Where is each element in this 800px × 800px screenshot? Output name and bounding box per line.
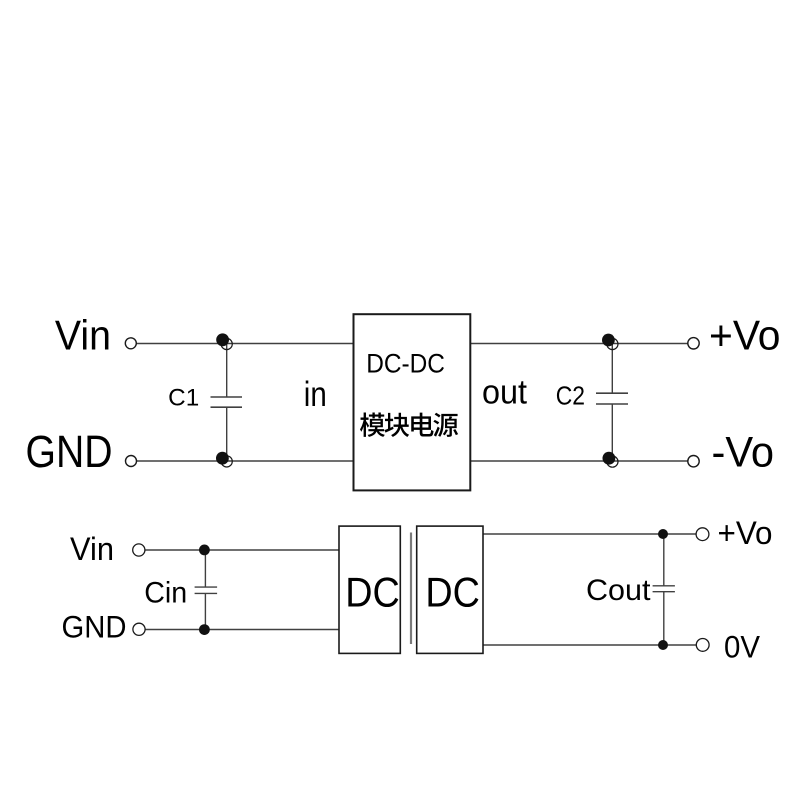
svg-text:GND: GND [62, 608, 127, 644]
svg-text:DC: DC [425, 568, 480, 615]
svg-text:-Vo: -Vo [712, 429, 775, 476]
svg-text:DC-DC: DC-DC [366, 349, 445, 379]
svg-text:Vin: Vin [70, 531, 114, 567]
svg-text:Cin: Cin [144, 577, 187, 610]
svg-text:+Vo: +Vo [709, 312, 781, 359]
svg-text:C1: C1 [168, 384, 199, 411]
svg-text:Cout: Cout [586, 575, 651, 607]
svg-text:in: in [304, 375, 327, 414]
svg-text:out: out [482, 373, 528, 411]
svg-text:C2: C2 [556, 381, 585, 411]
svg-text:Vin: Vin [55, 312, 111, 359]
svg-text:+Vo: +Vo [718, 515, 773, 551]
svg-text:GND: GND [26, 426, 113, 477]
svg-text:DC: DC [345, 568, 400, 615]
svg-text:0V: 0V [724, 629, 760, 665]
